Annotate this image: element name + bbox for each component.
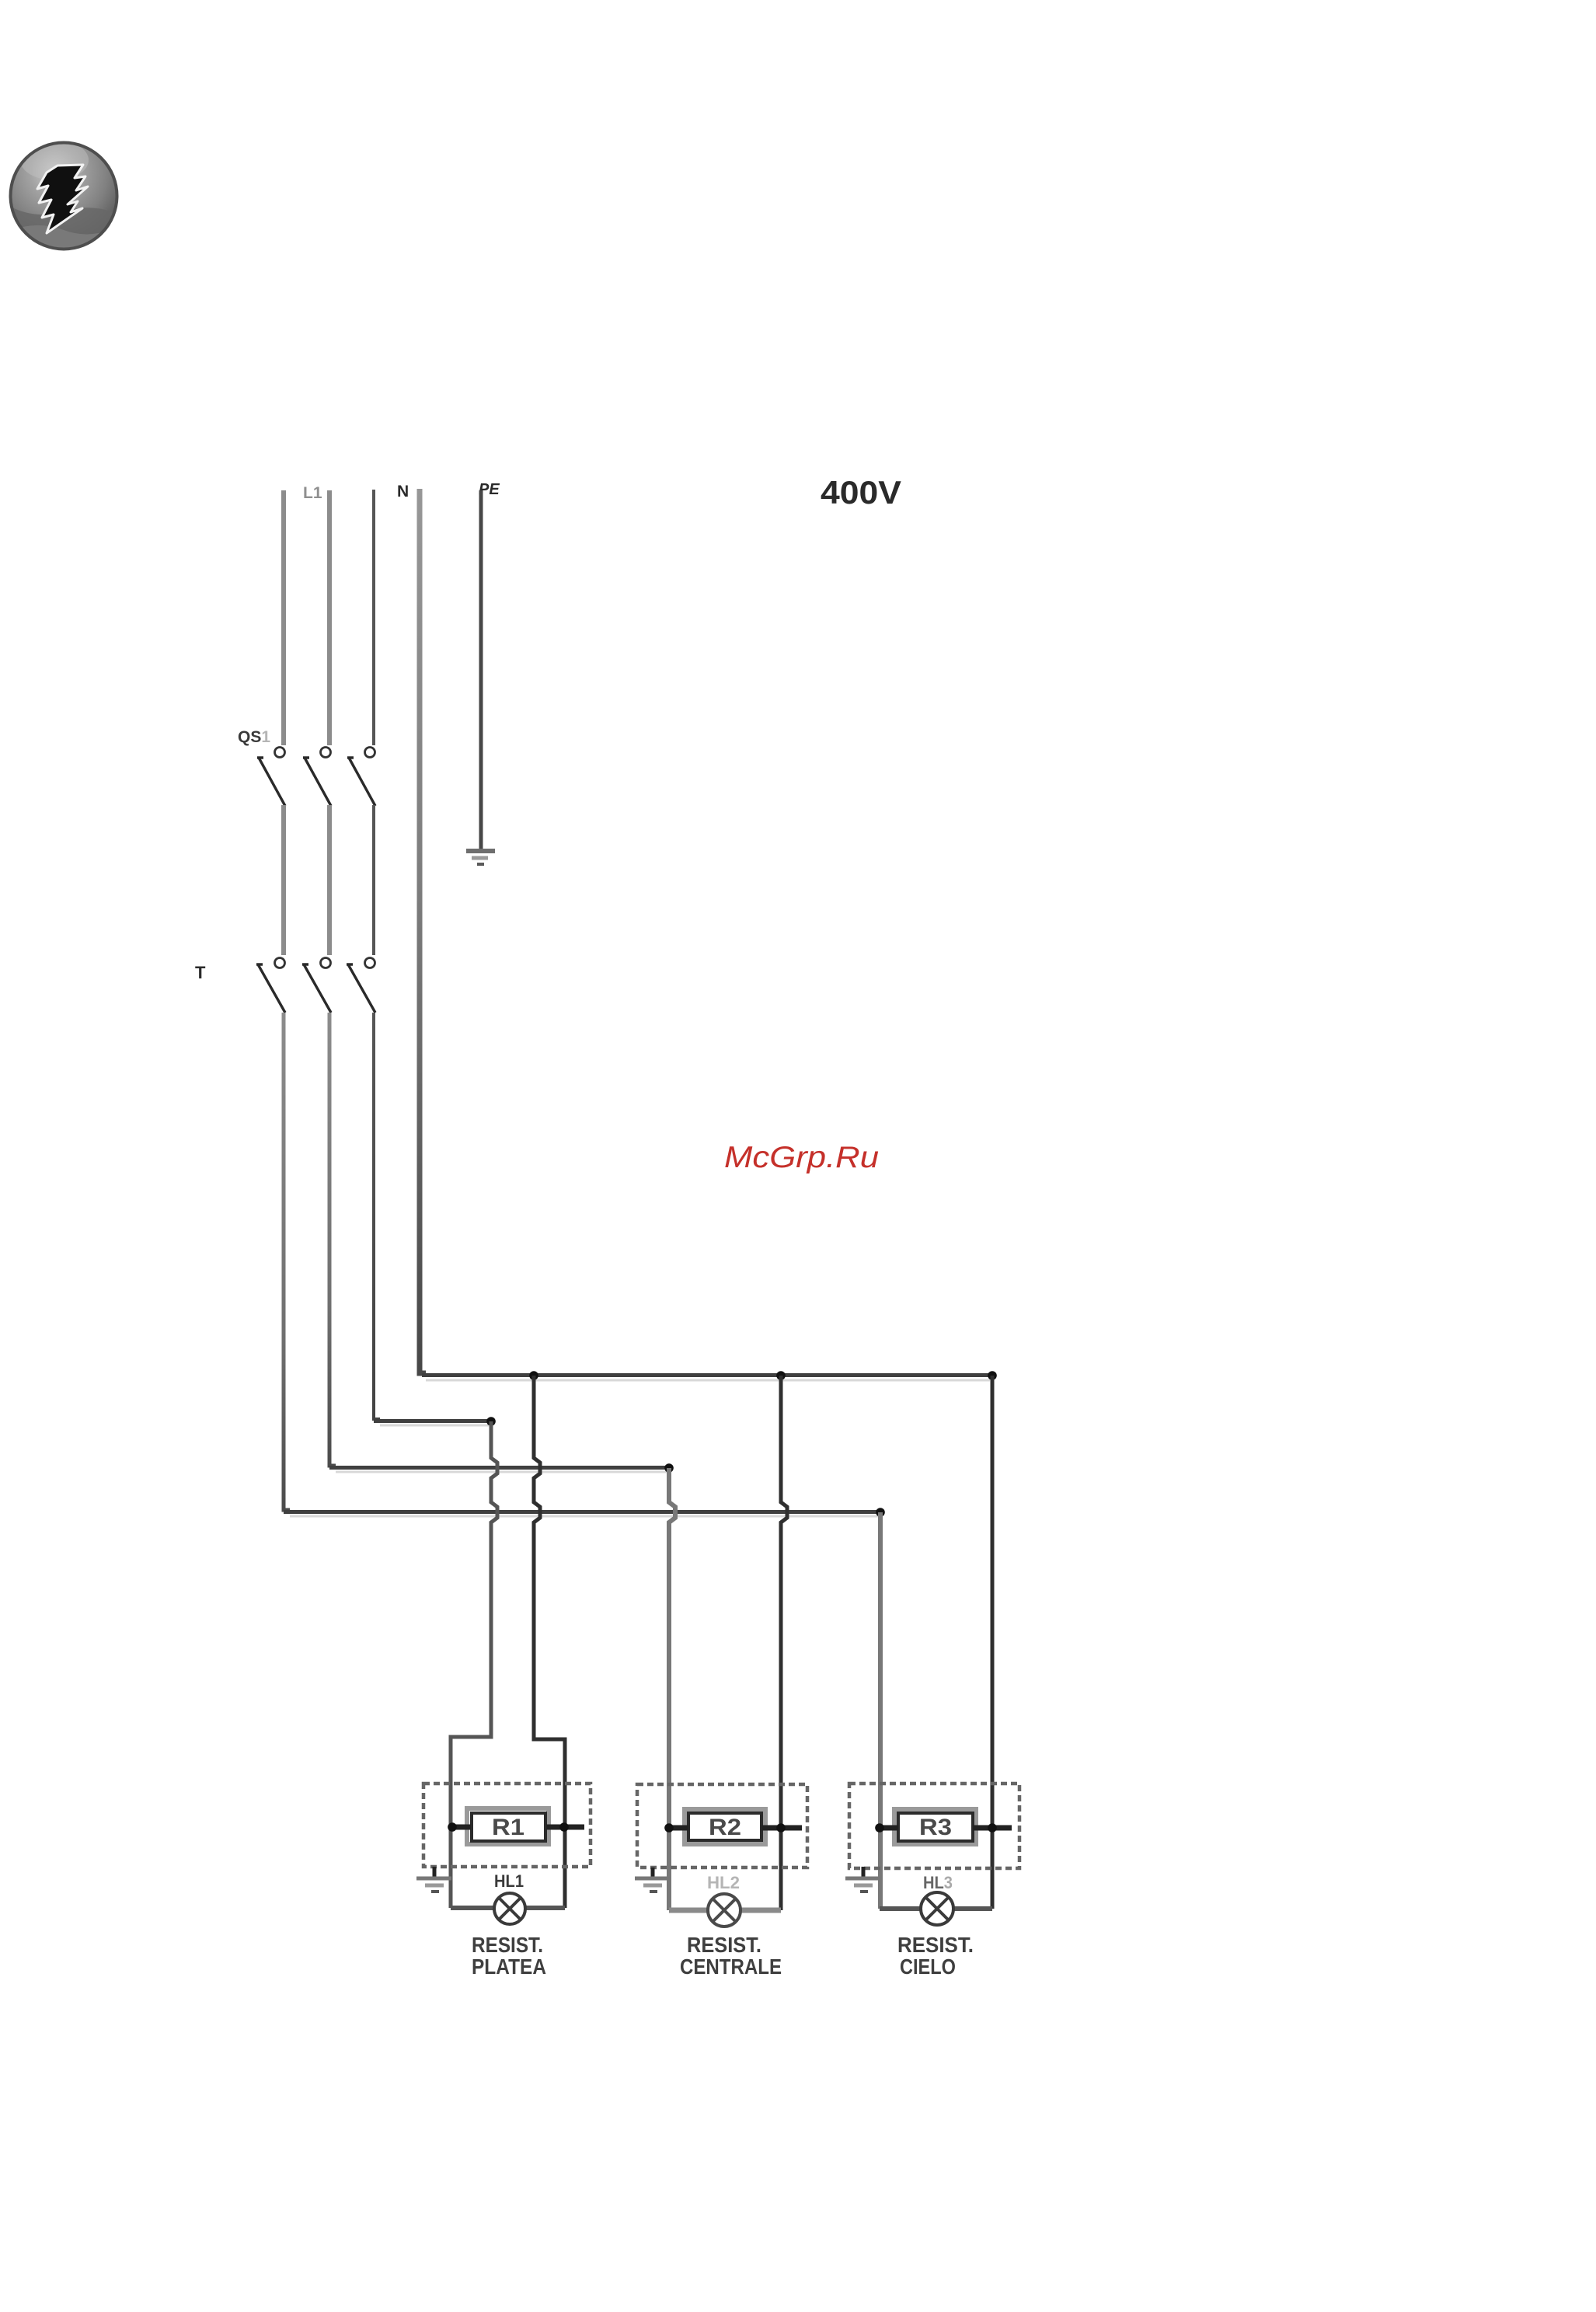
svg-text:HL1: HL1	[494, 1871, 524, 1891]
wire R1 right drop (with hops)	[534, 1376, 565, 1908]
svg-text:N: N	[397, 483, 409, 500]
resistor R3 leads	[880, 1826, 1012, 1831]
svg-text:T: T	[195, 963, 206, 982]
wire R3 left drop	[878, 1512, 883, 1909]
wire phase L1 upper segment	[281, 490, 286, 745]
svg-text:R3: R3	[919, 1815, 952, 1840]
shadow under wire	[290, 1515, 878, 1518]
logo sphere icon	[5, 140, 123, 263]
wire R3 right drop	[991, 1376, 995, 1909]
shadow under wire	[336, 1471, 667, 1473]
wire phase L3 to node of R1 left	[374, 1013, 380, 1419]
label RESIST. CENTRALE	[680, 1933, 782, 1979]
svg-text:RESIST.: RESIST.	[687, 1933, 761, 1957]
node dot R1 left terminal	[448, 1822, 457, 1832]
heater R1 dashed enclosure	[423, 1784, 591, 1867]
node dot R2 left terminal	[664, 1823, 674, 1833]
node dot N-R1 right	[529, 1371, 538, 1380]
svg-text:QS1: QS1	[238, 728, 270, 746]
switch QS1 pole 2 contact	[321, 748, 331, 758]
node dot N-R3 right	[988, 1371, 997, 1380]
ground symbol R1 enclosure	[416, 1867, 451, 1892]
svg-text:CIELO: CIELO	[900, 1955, 956, 1979]
node dot L2-R2 left	[664, 1463, 674, 1473]
svg-text:R1: R1	[492, 1815, 524, 1840]
svg-text:400V: 400V	[821, 474, 901, 511]
svg-text:HL2: HL2	[707, 1873, 740, 1892]
lamp HL3 wiring	[880, 1906, 992, 1911]
heater R3 dashed enclosure	[849, 1784, 1019, 1868]
lamp HL1 wiring	[451, 1906, 565, 1910]
wire neutral horizontal run	[422, 1373, 992, 1377]
svg-text:PLATEA: PLATEA	[472, 1955, 546, 1979]
switch QS1 pole 1 contact	[275, 748, 285, 758]
switch QS1 pole 1 blade	[257, 758, 285, 806]
lamp HL2 wiring	[669, 1908, 781, 1913]
switch QS1 pole 3 blade	[347, 758, 375, 806]
switch T pole 2 blade	[302, 964, 331, 1013]
label RESIST. PLATEA	[472, 1933, 546, 1979]
node dot L1-R3 left	[876, 1508, 885, 1517]
switch T pole 1 blade	[256, 964, 285, 1013]
wire PE earth conductor	[479, 490, 483, 849]
switch QS1 pole 2 blade	[303, 758, 331, 806]
wire phase L1 to node of R3 left	[284, 1013, 290, 1510]
wire phase L3 middle segment	[372, 805, 375, 955]
resistor R1 leads	[451, 1825, 584, 1830]
switch QS1 pole 3 contact	[365, 748, 375, 758]
wire R2 left drop (with hop)	[669, 1468, 675, 1910]
wire R1 left drop (with hops)	[451, 1421, 497, 1908]
lamp HL3	[921, 1892, 953, 1925]
wire phase L3 upper segment	[372, 490, 375, 745]
svg-text:HL3: HL3	[923, 1873, 953, 1892]
svg-text:L1: L1	[303, 484, 322, 502]
lightning bolt on sphere	[37, 165, 88, 233]
switch T pole 3 blade	[347, 964, 375, 1013]
svg-text:CENTRALE: CENTRALE	[680, 1955, 782, 1979]
svg-text:McGrp.Ru: McGrp.Ru	[724, 1141, 879, 1174]
wire neutral N	[420, 489, 426, 1373]
label RESIST. CIELO	[897, 1933, 974, 1979]
lamp HL2	[708, 1894, 741, 1927]
ground symbol R2 enclosure	[635, 1867, 670, 1892]
resistor R2 body	[685, 1809, 765, 1844]
shadow under wire	[426, 1379, 990, 1382]
wire phase L1 middle segment	[281, 805, 286, 955]
PE ground symbol	[466, 851, 495, 864]
switch T pole 2 contact	[321, 958, 331, 968]
wire phase L2 to node of R2 left	[329, 1013, 336, 1466]
resistor R2 leads	[669, 1826, 802, 1831]
node dot R3 left terminal	[875, 1823, 884, 1833]
node dot R2 right terminal	[776, 1823, 786, 1833]
svg-text:RESIST.: RESIST.	[472, 1933, 543, 1957]
wire phase L2 upper segment	[327, 490, 332, 745]
svg-text:RESIST.: RESIST.	[897, 1933, 974, 1957]
wire phase L2 middle segment	[327, 805, 332, 955]
lamp HL1	[494, 1893, 525, 1924]
heater R2 dashed enclosure	[637, 1784, 807, 1867]
node dot N-R2 right	[776, 1371, 786, 1380]
switch T pole 1 contact	[275, 958, 285, 968]
svg-text:R2: R2	[709, 1815, 741, 1840]
wire R2 right drop (with hop)	[781, 1376, 787, 1910]
switch T pole 3 contact	[365, 958, 375, 968]
node dot L3-R1 left	[486, 1417, 496, 1426]
resistor R1 body	[467, 1808, 549, 1844]
ground symbol R3 enclosure	[845, 1867, 880, 1892]
shadow under wire	[380, 1425, 489, 1427]
node dot R3 right terminal	[988, 1823, 997, 1833]
resistor R3 body	[894, 1809, 976, 1844]
node dot R1 right terminal	[559, 1822, 569, 1832]
